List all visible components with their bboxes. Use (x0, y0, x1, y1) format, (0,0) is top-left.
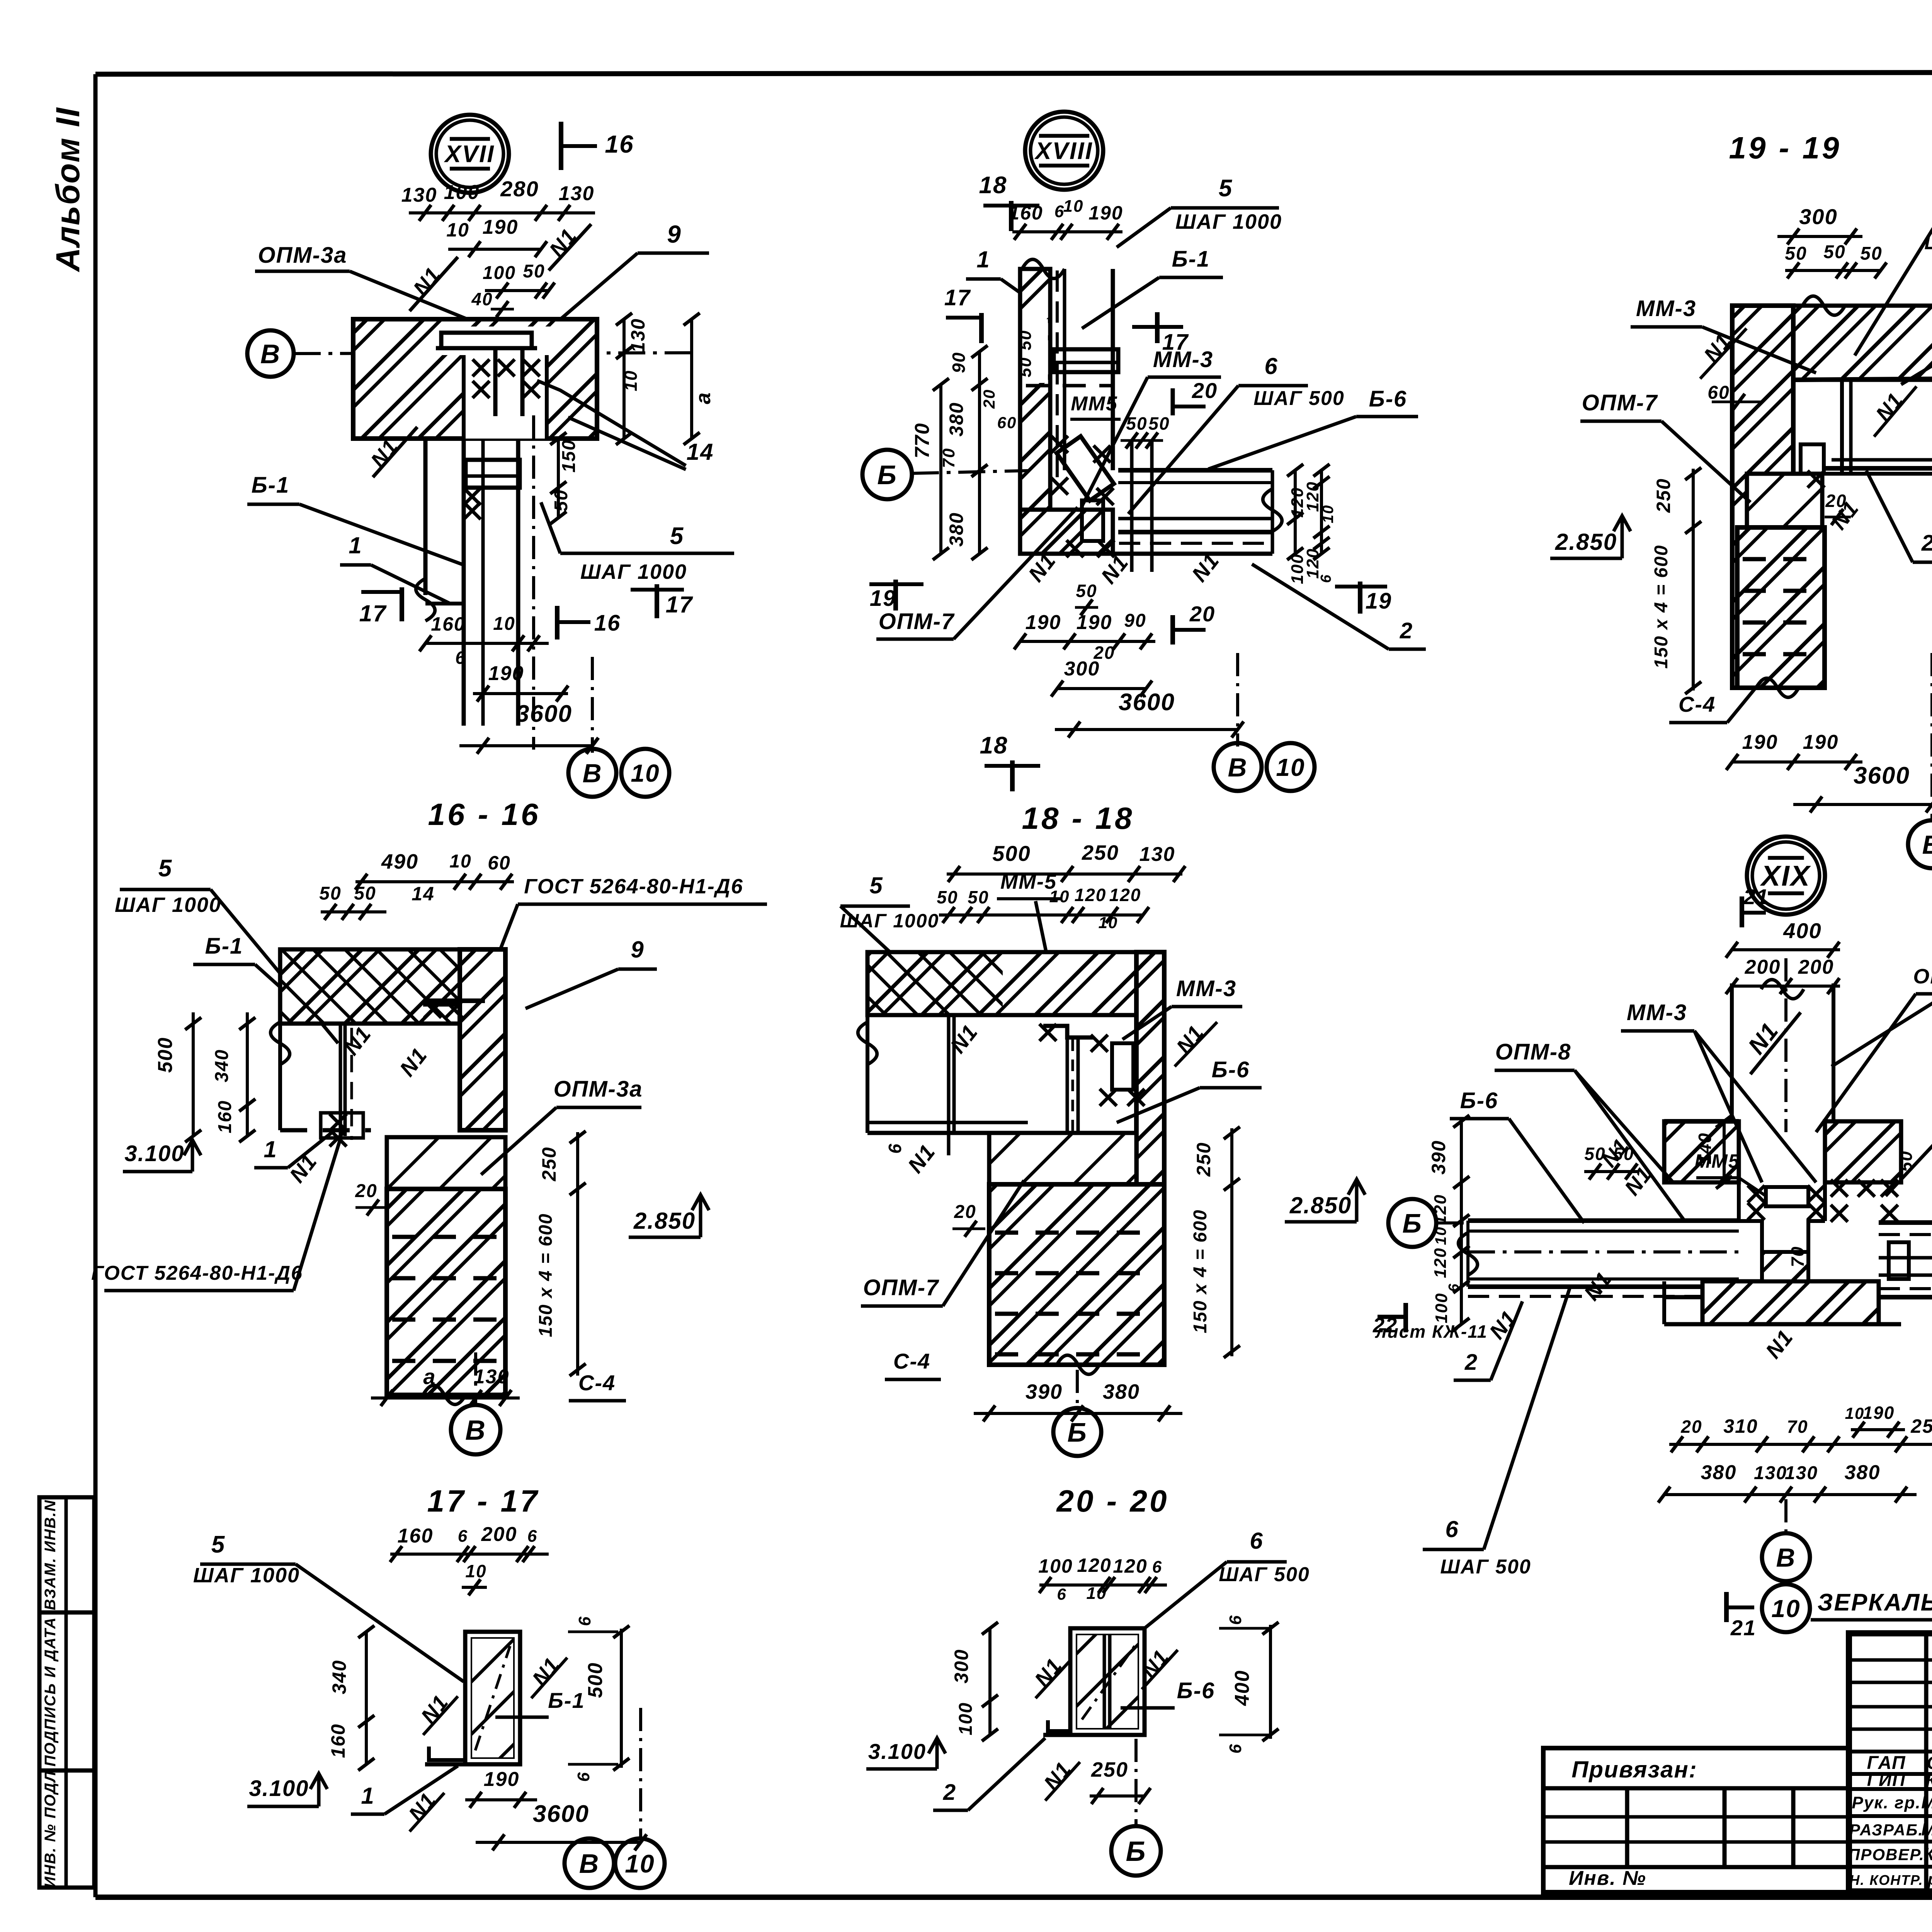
stamp box vzam inv (39, 1497, 94, 1612)
support bracket on beam (466, 460, 520, 488)
svg-text:ГОСТ 5264-80-Н1-Д6: ГОСТ 5264-80-Н1-Д6 (524, 875, 743, 898)
svg-text:3600: 3600 (533, 1801, 589, 1827)
svg-text:ОПМ-3а: ОПМ-3а (258, 243, 347, 268)
dashed line under bracket (1026, 384, 1113, 388)
svg-text:3600: 3600 (516, 701, 572, 727)
anchor bolt block XVIII (1082, 500, 1103, 541)
svg-text:340: 340 (212, 1049, 232, 1082)
svg-text:6: 6 (1057, 1585, 1066, 1603)
beam B-1 verticals below slab (462, 439, 466, 726)
svg-text:500: 500 (584, 1662, 607, 1698)
svg-text:ММ-3: ММ-3 (1636, 296, 1696, 321)
svg-text:10: 10 (465, 1561, 486, 1581)
svg-text:250: 250 (1193, 1142, 1214, 1177)
svg-text:50: 50 (354, 883, 376, 904)
svg-text:1: 1 (361, 1783, 374, 1809)
svg-text:ОПМ-7: ОПМ-7 (879, 609, 955, 634)
svg-text:190: 190 (488, 662, 524, 685)
svg-text:340: 340 (328, 1660, 350, 1694)
grid axis 18 (1076, 1370, 1079, 1410)
svg-text:18: 18 (979, 172, 1007, 199)
section flag 16 bottom (555, 606, 560, 639)
title block left verticals (1924, 1633, 1929, 1891)
svg-text:50: 50 (1613, 1144, 1634, 1164)
svg-text:1: 1 (264, 1136, 277, 1162)
svg-text:300: 300 (1799, 204, 1837, 229)
svg-text:5: 5 (158, 855, 172, 882)
central embed verticals 18 (1066, 1039, 1069, 1133)
svg-text:50: 50 (1584, 1144, 1605, 1164)
angle bracket 17 (429, 1747, 465, 1760)
grid axis to bubbles (591, 657, 594, 753)
svg-text:310: 310 (1723, 1415, 1758, 1437)
svg-text:50: 50 (1896, 1150, 1916, 1172)
svg-text:300: 300 (1064, 658, 1100, 680)
svg-text:10: 10 (1771, 1595, 1800, 1622)
svg-text:3600: 3600 (1854, 762, 1910, 789)
svg-text:130: 130 (627, 318, 649, 352)
grid bubbles V 10 (568, 749, 616, 797)
grid bubble B 18 (1053, 1408, 1101, 1456)
svg-text:Б-6: Б-6 (1212, 1057, 1250, 1082)
section flag 17 right (655, 584, 659, 618)
svg-text:3.100: 3.100 (868, 1739, 926, 1764)
svg-text:ОПМ-3а: ОПМ-3а (554, 1077, 643, 1102)
svg-text:а: а (423, 1364, 436, 1389)
lower column 18 (989, 1184, 1164, 1365)
label 20 flag XVIII (1171, 388, 1175, 415)
stamp box inv no podl (39, 1770, 94, 1888)
svg-text:В: В (260, 339, 281, 369)
title block outer frame (1849, 1633, 1932, 1891)
svg-text:2.850: 2.850 (1555, 529, 1617, 555)
svg-text:770: 770 (911, 423, 934, 459)
grid axis to bubbles XVIII (1236, 653, 1239, 747)
svg-text:9: 9 (667, 220, 682, 248)
svg-text:200: 200 (481, 1523, 517, 1546)
svg-text:ШАГ 500: ШАГ 500 (1253, 387, 1345, 410)
central block lower XIX (1739, 1221, 1825, 1252)
pad bolts XIX (1889, 1242, 1909, 1279)
svg-text:200: 200 (1798, 956, 1834, 978)
svg-text:РАЗРАБ.: РАЗРАБ. (1849, 1821, 1923, 1839)
svg-text:60: 60 (1708, 383, 1730, 403)
svg-text:ОПМ-7: ОПМ-7 (863, 1275, 939, 1300)
svg-text:50: 50 (1785, 243, 1807, 264)
svg-text:70: 70 (1787, 1417, 1808, 1437)
svg-text:6: 6 (1318, 574, 1334, 583)
grid axis XIX bottom (1784, 1499, 1787, 1533)
svg-text:17: 17 (944, 285, 971, 310)
svg-text:250: 250 (1910, 1415, 1932, 1437)
wall hatched strip XVIII (1020, 269, 1050, 554)
grid axis 17 (639, 1708, 642, 1840)
svg-text:Б-1: Б-1 (252, 473, 290, 498)
svg-text:КАЛЕДИНА: КАЛЕДИНА (1926, 1771, 1932, 1790)
svg-text:10: 10 (1063, 197, 1084, 216)
svg-text:6: 6 (1250, 1528, 1263, 1554)
svg-text:20: 20 (980, 389, 998, 409)
svg-text:3600: 3600 (1119, 689, 1175, 716)
svg-text:390: 390 (1026, 1380, 1063, 1403)
section flag 21 top (1740, 896, 1744, 927)
svg-text:ММ-3: ММ-3 (1176, 976, 1236, 1001)
svg-text:250: 250 (1653, 478, 1674, 513)
svg-text:ММ-5: ММ-5 (1000, 870, 1057, 893)
svg-text:МОРОЗОВА: МОРОЗОВА (1921, 1793, 1932, 1812)
anchor block right 18 (1112, 1043, 1133, 1090)
beam web region 16 (278, 949, 282, 1130)
svg-text:50: 50 (937, 887, 958, 907)
grid bubble B XIX (1388, 1199, 1436, 1247)
svg-text:14: 14 (687, 439, 714, 465)
svg-text:XVII: XVII (444, 141, 495, 168)
svg-text:Привязан:: Привязан: (1571, 1757, 1697, 1782)
svg-text:Н. КОНТР.: Н. КОНТР. (1849, 1872, 1923, 1888)
bottom line XIX (1664, 1322, 1901, 1327)
svg-text:380: 380 (946, 512, 967, 546)
svg-text:250: 250 (1082, 841, 1119, 864)
title block staff row lines (1849, 1750, 1932, 1753)
svg-text:В: В (465, 1415, 486, 1446)
step plate MM5 18 (1043, 1026, 1094, 1037)
svg-text:150 х 4 = 600: 150 х 4 = 600 (536, 1213, 556, 1337)
svg-text:100: 100 (1038, 1555, 1073, 1577)
anchor plate small 19 (1801, 444, 1824, 474)
svg-text:150: 150 (559, 439, 579, 473)
grid circle V left (247, 330, 294, 377)
svg-text:Б: Б (1126, 1836, 1146, 1867)
svg-text:50: 50 (1126, 413, 1147, 434)
svg-text:6: 6 (527, 1527, 537, 1546)
grid axis 16 (474, 1352, 477, 1406)
svg-text:10: 10 (493, 614, 515, 634)
svg-text:190: 190 (484, 1768, 520, 1791)
top slab hatched band 19 (1732, 306, 1932, 380)
sheet frame top border (95, 72, 1932, 74)
svg-text:130: 130 (1139, 843, 1175, 866)
svg-text:10: 10 (621, 370, 641, 391)
svg-text:С-4: С-4 (893, 1349, 930, 1373)
svg-text:70: 70 (1787, 1246, 1808, 1267)
svg-text:120: 120 (1077, 1554, 1111, 1576)
svg-text:6: 6 (455, 648, 466, 668)
svg-text:50: 50 (1016, 357, 1035, 378)
svg-text:Альбом II: Альбом II (49, 107, 87, 272)
svg-text:6: 6 (1152, 1558, 1162, 1577)
node marker XVII (431, 115, 509, 193)
svg-text:50: 50 (1016, 330, 1035, 350)
axis dashdot into detail (912, 471, 1028, 473)
svg-text:10: 10 (1099, 913, 1118, 932)
left beam B-6 lines XIX (1468, 1218, 1739, 1223)
privyazan table (1543, 1748, 1849, 1892)
svg-text:50: 50 (1860, 243, 1882, 264)
svg-text:6: 6 (574, 1772, 593, 1782)
svg-text:ШАГ 1000: ШАГ 1000 (115, 893, 221, 917)
slab band white gap edges (462, 355, 466, 439)
bottom flange lines 18 (867, 1121, 1028, 1124)
svg-text:17 - 17: 17 - 17 (427, 1484, 539, 1518)
svg-text:МОРОЗОВА: МОРОЗОВА (1921, 1820, 1932, 1839)
svg-text:190: 190 (1077, 611, 1112, 634)
beam B-6 19 top lines (1793, 379, 1932, 380)
svg-text:130: 130 (1785, 1463, 1818, 1483)
svg-text:130: 130 (474, 1366, 510, 1388)
title block small top rows (1849, 1658, 1932, 1662)
svg-text:50: 50 (1076, 581, 1097, 601)
grid bubble V 16 (451, 1405, 500, 1454)
svg-text:19 - 19: 19 - 19 (1729, 131, 1841, 165)
svg-text:100: 100 (1432, 1293, 1451, 1323)
hanger bolts XVIII (1130, 440, 1134, 572)
svg-text:300: 300 (951, 1649, 972, 1683)
svg-text:ВЗАМ. ИНВ.N: ВЗАМ. ИНВ.N (42, 1500, 59, 1611)
svg-text:100: 100 (956, 1702, 976, 1735)
svg-text:90: 90 (949, 352, 969, 373)
svg-text:130: 130 (401, 184, 437, 206)
sheet frame left border (94, 74, 98, 1897)
left wall strip 19 (1732, 306, 1793, 688)
rib verticals 18 (947, 1015, 951, 1132)
svg-text:380: 380 (1701, 1461, 1737, 1484)
svg-text:ШАГ 1000: ШАГ 1000 (1175, 210, 1282, 233)
svg-text:ММ5: ММ5 (1071, 393, 1118, 415)
svg-text:10: 10 (625, 1849, 655, 1878)
svg-text:ГОСТ 5264-80-Н1-Д6: ГОСТ 5264-80-Н1-Д6 (91, 1262, 303, 1284)
svg-text:Б-1: Б-1 (548, 1688, 585, 1713)
web rib verticals 16 (339, 1024, 342, 1136)
svg-text:160: 160 (215, 1100, 235, 1133)
section flag 18 bottom (1010, 760, 1015, 791)
label 17 flags XVIII (979, 313, 984, 343)
svg-text:280: 280 (500, 177, 539, 201)
section flag 18 top (1009, 201, 1014, 231)
top band cross-hatched beam 16 (280, 949, 460, 1024)
wall top squiggle (1022, 259, 1065, 279)
svg-text:20: 20 (1825, 491, 1847, 511)
svg-text:2.850: 2.850 (1289, 1192, 1352, 1218)
svg-text:В: В (1776, 1543, 1796, 1572)
section flag 19 right (1358, 582, 1362, 614)
svg-text:18 - 18: 18 - 18 (1022, 801, 1134, 835)
svg-text:16 - 16: 16 - 16 (428, 797, 540, 832)
svg-text:120: 120 (1113, 1555, 1147, 1577)
svg-text:160: 160 (327, 1723, 349, 1758)
svg-text:9: 9 (631, 937, 644, 963)
svg-text:50: 50 (1148, 413, 1170, 434)
MM5 plate rotated (1056, 436, 1114, 500)
web region 18 (866, 952, 869, 1133)
bearing plate on slab (441, 333, 532, 348)
svg-text:14: 14 (412, 883, 435, 905)
anchor X right wall XIX (1831, 1180, 1848, 1197)
svg-text:16: 16 (605, 130, 634, 158)
svg-text:ШАГ 1000: ШАГ 1000 (580, 560, 687, 583)
svg-text:130: 130 (1754, 1463, 1787, 1483)
svg-text:50: 50 (319, 883, 341, 904)
svg-text:6: 6 (1226, 1615, 1245, 1625)
column mesh dashes 19 (1743, 557, 1820, 561)
svg-text:6: 6 (458, 1527, 468, 1546)
svg-text:90: 90 (1124, 611, 1146, 631)
svg-text:2: 2 (1464, 1350, 1478, 1375)
svg-text:50: 50 (968, 887, 989, 907)
svg-text:50: 50 (523, 261, 545, 282)
svg-text:10: 10 (1845, 1404, 1865, 1422)
svg-text:50: 50 (1823, 242, 1845, 262)
top-left block XIX (1664, 1121, 1739, 1182)
svg-text:Б: Б (1402, 1208, 1422, 1238)
svg-text:500: 500 (154, 1037, 177, 1073)
grid axis 19 (1930, 653, 1932, 820)
svg-text:3.100: 3.100 (249, 1776, 309, 1801)
svg-text:10: 10 (446, 219, 469, 241)
svg-text:200: 200 (1745, 956, 1781, 978)
grid circle B XVIII (862, 450, 912, 499)
section flag 16 top (559, 122, 563, 170)
svg-text:5: 5 (211, 1531, 225, 1558)
svg-text:20: 20 (1189, 602, 1215, 626)
right pad BM-4 XIX (1879, 1220, 1932, 1225)
svg-text:Б-1: Б-1 (1172, 247, 1210, 272)
svg-text:19: 19 (870, 586, 896, 611)
svg-text:КАЛЕДИНА: КАЛЕДИНА (1923, 1844, 1932, 1864)
svg-text:150 х 4 = 600: 150 х 4 = 600 (1190, 1209, 1211, 1333)
left beam lower dashed (1468, 1295, 1739, 1298)
svg-text:Б-6: Б-6 (1369, 386, 1407, 412)
anchor bolts (493, 349, 498, 416)
central column XIX (1730, 983, 1734, 1121)
right dim 130 10 a (622, 319, 626, 439)
svg-text:лист КЖ-11: лист КЖ-11 (1375, 1321, 1488, 1342)
svg-text:ИНВ. № ПОДЛ: ИНВ. № ПОДЛ (42, 1770, 59, 1888)
svg-text:20: 20 (1680, 1417, 1702, 1437)
svg-text:380: 380 (1845, 1461, 1881, 1484)
svg-text:120: 120 (1109, 885, 1141, 905)
node marker XIX (1747, 837, 1825, 915)
svg-text:В: В (1228, 753, 1247, 782)
svg-text:Б: Б (1067, 1417, 1087, 1447)
wall corner block (1020, 510, 1113, 554)
svg-text:160: 160 (398, 1525, 434, 1547)
svg-text:190: 190 (1026, 611, 1061, 634)
svg-text:6: 6 (1264, 353, 1278, 379)
right wall column 16 (460, 949, 505, 1130)
svg-text:1: 1 (976, 247, 990, 272)
axis line through slab (294, 353, 696, 354)
right wall column 18 (1136, 952, 1164, 1365)
svg-text:10: 10 (449, 851, 471, 872)
channel box 17 (465, 1632, 520, 1764)
svg-text:250: 250 (538, 1146, 560, 1181)
svg-text:10: 10 (1087, 1584, 1107, 1603)
pillow 16 (387, 1137, 505, 1189)
node marker XVIII (1025, 112, 1103, 190)
svg-text:21: 21 (1730, 1616, 1756, 1640)
svg-text:ММ-3: ММ-3 (1627, 1000, 1687, 1025)
central hatched T XIX (1702, 1281, 1879, 1324)
svg-text:ШАГ 500: ШАГ 500 (1219, 1563, 1310, 1586)
lower column 19 (1737, 527, 1825, 688)
svg-text:5: 5 (1219, 175, 1233, 202)
svg-text:3.100: 3.100 (124, 1141, 184, 1166)
bottom-left flange XIX (1664, 1295, 1702, 1299)
svg-text:40: 40 (471, 289, 493, 309)
section flag 17 left (400, 587, 404, 621)
central pocket XIX (1737, 1121, 1741, 1221)
svg-text:ОПМ-7: ОПМ-7 (1582, 390, 1658, 415)
slab hatched band (353, 319, 597, 439)
svg-text:21: 21 (1743, 884, 1769, 909)
svg-text:120: 120 (1075, 885, 1107, 905)
svg-text:XVIII: XVIII (1034, 138, 1093, 165)
svg-text:6: 6 (1445, 1516, 1459, 1542)
svg-text:С-4: С-4 (1679, 692, 1716, 716)
bottom level dashed line 16 (280, 1128, 371, 1133)
pillow 18 (989, 1133, 1136, 1184)
svg-text:160: 160 (1009, 202, 1043, 224)
left upper flange lines XIX (1664, 1119, 1739, 1124)
svg-text:В: В (582, 759, 602, 788)
svg-text:2.850: 2.850 (633, 1208, 696, 1234)
grid bubble B 20 (1111, 1826, 1161, 1876)
svg-text:Б-1: Б-1 (205, 934, 243, 959)
svg-text:100: 100 (483, 263, 516, 283)
svg-text:20: 20 (954, 1202, 976, 1222)
svg-text:2: 2 (943, 1780, 956, 1805)
grid bubbles V 10 XVIII (1214, 743, 1262, 791)
svg-text:400: 400 (1783, 918, 1821, 943)
grid bubbles V 10 17 (565, 1838, 614, 1888)
top band 18 (867, 952, 1158, 1015)
svg-text:160: 160 (431, 613, 465, 635)
svg-text:В: В (579, 1849, 600, 1879)
svg-text:Б-6: Б-6 (1460, 1088, 1498, 1113)
svg-text:150 х 4 = 600: 150 х 4 = 600 (1651, 545, 1672, 669)
svg-text:390: 390 (1428, 1140, 1449, 1174)
svg-text:6: 6 (575, 1616, 594, 1626)
svg-text:380: 380 (946, 402, 967, 436)
svg-text:ПРОВЕР.: ПРОВЕР. (1848, 1845, 1925, 1864)
svg-text:2: 2 (1400, 618, 1413, 643)
svg-text:2: 2 (1921, 531, 1932, 556)
flag 22 left XIX (1403, 1303, 1408, 1332)
top-right block XIX (1825, 1121, 1901, 1182)
svg-text:17: 17 (666, 592, 693, 617)
beam B-6 horizontal lines (1118, 468, 1272, 473)
svg-text:120: 120 (1431, 1247, 1450, 1278)
svg-text:С-4: С-4 (578, 1371, 616, 1395)
svg-text:19: 19 (1366, 588, 1392, 614)
svg-text:60: 60 (488, 852, 511, 874)
svg-text:Рук. гр.: Рук. гр. (1852, 1793, 1921, 1812)
pillow block 19 (1747, 474, 1822, 527)
svg-text:130: 130 (559, 182, 595, 205)
embedded angle top right 16 (423, 989, 460, 1005)
svg-text:5: 5 (869, 872, 883, 898)
svg-text:5: 5 (670, 523, 684, 549)
svg-text:20 - 20: 20 - 20 (1056, 1484, 1169, 1518)
svg-text:6: 6 (1226, 1743, 1245, 1753)
grid bubbles 8 10 19 (1908, 820, 1932, 868)
svg-text:400: 400 (1231, 1670, 1253, 1706)
svg-text:190: 190 (1863, 1403, 1895, 1423)
svg-text:380: 380 (1103, 1380, 1140, 1403)
svg-text:250: 250 (1091, 1758, 1128, 1781)
section flag 19 left (893, 580, 898, 611)
sheet frame bottom border (95, 1895, 1932, 1900)
